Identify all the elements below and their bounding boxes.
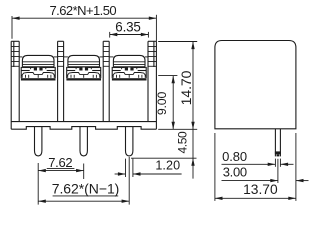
dimension 4.50 pin length	[131, 129, 197, 178]
svg-text:9.00: 9.00	[155, 92, 169, 116]
svg-text:6.35: 6.35	[115, 20, 140, 35]
dimension 3.00 pin offset	[222, 159, 309, 183]
front view right end wall	[148, 41, 156, 129]
dimension 1.20 pin width	[115, 159, 182, 177]
dimension 6.35 opening width	[110, 20, 149, 38]
front view barrier wall 2	[103, 41, 109, 121]
dimension 9.00 body height	[155, 76, 178, 130]
dimension 7.62*(N-1) total pitch	[38, 157, 129, 205]
front pin 1	[35, 127, 42, 156]
svg-text:14.70: 14.70	[178, 70, 194, 105]
svg-text:0.80: 0.80	[222, 149, 247, 164]
svg-text:4.50: 4.50	[176, 131, 190, 153]
front pin 3	[126, 127, 133, 156]
svg-text:3.00: 3.00	[223, 165, 247, 180]
svg-text:13.70: 13.70	[243, 182, 278, 197]
side view pin with crimp	[275, 129, 281, 157]
dimension 0.80 pin thickness	[222, 149, 294, 167]
dimension 14.70 overall height	[158, 42, 197, 130]
front view left end wall	[11, 41, 19, 129]
extension line at base bottom	[158, 128, 197, 130]
svg-text:7.62*N+1.50: 7.62*N+1.50	[50, 3, 117, 18]
front view top surface line	[19, 56, 148, 58]
front view base with standoff notches	[11, 122, 156, 130]
dimension 7.62 pin pitch	[38, 155, 83, 205]
terminal unit 1 screw cover and clamp	[21, 55, 56, 80]
front pin 2	[80, 127, 87, 156]
terminal unit 3 screw cover and clamp	[112, 55, 147, 80]
side view body	[215, 41, 296, 129]
svg-text:7.62*(N−1): 7.62*(N−1)	[52, 180, 120, 196]
svg-text:7.62: 7.62	[48, 155, 72, 170]
svg-text:1.20: 1.20	[155, 159, 180, 173]
dimension 13.70 body depth	[215, 133, 296, 201]
dimension 7.62*N+1.50 overall width	[12, 3, 156, 41]
front view barrier wall 1	[58, 41, 64, 121]
terminal unit 2 screw cover and clamp	[66, 55, 101, 80]
